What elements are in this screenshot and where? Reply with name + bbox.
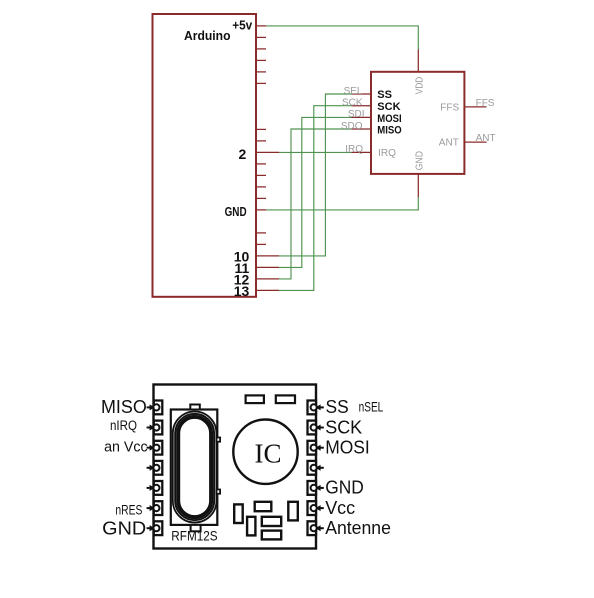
pin 12 stub (256, 278, 279, 280)
RF module chip box U2 (371, 72, 464, 174)
svg-text:IRQ: IRQ (345, 144, 363, 155)
smd comp C (255, 502, 272, 511)
wire SDO net (279, 129, 352, 279)
svg-text:SCK: SCK (325, 417, 362, 437)
left arrow 3 (147, 445, 155, 451)
crystal side bump 1 (217, 438, 221, 442)
svg-text:SS: SS (377, 89, 392, 101)
left arrow 5 (147, 485, 155, 491)
svg-text:nRES: nRES (115, 502, 142, 517)
pin FFS line (464, 106, 486, 108)
left pin pad 5 (153, 481, 162, 495)
pin stub row19 (256, 243, 266, 245)
smd comp B (247, 517, 255, 536)
crystal can ring mid (175, 414, 214, 520)
pin SCK stub (352, 105, 372, 107)
left arrow 1 (147, 404, 155, 410)
smd comp F (288, 502, 298, 521)
left pin pad 1 (MISO) (153, 401, 162, 415)
left pin pad 4 (153, 461, 162, 475)
pin SDI stub (352, 116, 372, 118)
right pin pad 5 (GND) (308, 481, 317, 495)
left pin pad 2 (nIRQ) (153, 421, 162, 435)
pin stub row13 (256, 174, 266, 176)
pin SEL stub (352, 93, 372, 95)
pin VDD stub (417, 50, 419, 72)
right arrow 5 (315, 485, 323, 491)
pin IRQ stub (352, 151, 372, 153)
svg-text:IC: IC (255, 438, 282, 468)
crystal outer rect (171, 410, 218, 525)
pin stub row5 (256, 82, 266, 84)
svg-text:13: 13 (234, 283, 250, 299)
smd comp E (262, 531, 281, 540)
right arrow 1 (315, 404, 323, 410)
svg-text:MISO: MISO (377, 125, 402, 137)
pin stub row4 (256, 71, 266, 73)
right arrow 6 (315, 505, 323, 511)
svg-text:SDO: SDO (341, 121, 363, 132)
svg-text:GND: GND (325, 478, 364, 498)
wire GND net (266, 197, 418, 210)
pin ANT line (464, 141, 486, 143)
svg-text:SCK: SCK (342, 98, 363, 109)
smd cap top 2 (276, 395, 295, 403)
wire +5v net (266, 26, 418, 50)
right arrow 3 (315, 445, 323, 451)
left arrow 6 (147, 505, 155, 511)
pin 11 stub (256, 266, 279, 268)
crystal side bump 2 (217, 490, 221, 494)
pin GND chip stub (417, 174, 419, 197)
IC circle (233, 420, 297, 484)
smd cap top 1 (246, 395, 264, 403)
svg-text:Arduino: Arduino (184, 29, 231, 43)
right pin pad 3 (MOSI) (308, 441, 317, 455)
svg-text:MISO: MISO (101, 397, 147, 417)
svg-text:SS: SS (326, 396, 349, 417)
crystal can ring inner (178, 417, 211, 517)
left pin pad 6 (nRES) (153, 501, 162, 515)
right pin pad 7 (Antenne) (308, 521, 317, 535)
left arrow 7 (147, 525, 155, 531)
svg-text:nIRQ: nIRQ (110, 418, 137, 433)
svg-text:VDD: VDD (414, 77, 425, 95)
left pin pad 7 (GND) (153, 521, 162, 535)
right arrow 4 (315, 465, 323, 471)
pin stub row15 (256, 197, 266, 199)
smd comp D (262, 517, 281, 526)
pin stub row2 (256, 48, 266, 50)
left arrow 2 (147, 425, 155, 431)
Arduino box U1 (153, 14, 257, 297)
pin 2 stub (256, 151, 279, 153)
svg-text:nSEL: nSEL (359, 398, 384, 414)
right pin pad 6 (Vcc) (308, 501, 317, 515)
wire IRQ net (279, 151, 352, 153)
svg-text:FFS: FFS (440, 103, 459, 114)
module board outline (154, 385, 317, 549)
svg-text:MOSI: MOSI (377, 113, 401, 125)
wire SDI net (279, 117, 352, 267)
right arrow 2 (315, 425, 323, 431)
wire SEL net (279, 94, 352, 256)
left arrow 4 (147, 465, 155, 471)
crystal bottom tab (191, 525, 201, 531)
right arrow 7 (315, 525, 323, 531)
pin SDO stub (352, 128, 372, 130)
svg-text:SDI: SDI (348, 109, 365, 120)
svg-text:SCK: SCK (377, 101, 400, 113)
pin stub row12 (256, 163, 266, 165)
svg-text:GND: GND (102, 518, 146, 539)
svg-text:ANT: ANT (476, 133, 496, 144)
pin stub row3 (256, 59, 266, 61)
pin 13 stub (256, 289, 279, 291)
wire SCK net (279, 106, 352, 291)
right pin pad 2 (SCK) (308, 421, 317, 435)
svg-text:GND: GND (414, 151, 425, 170)
svg-text:2: 2 (239, 146, 247, 162)
svg-text:IRQ: IRQ (378, 148, 396, 159)
pin stub row10 (256, 140, 266, 142)
svg-text:an Vcc: an Vcc (104, 440, 148, 456)
pin stub row18 (256, 232, 266, 234)
right pin pad 4 (308, 461, 317, 475)
svg-text:RFM12S: RFM12S (171, 529, 217, 544)
left pin pad 3 (an Vcc) (153, 441, 162, 455)
pin GND stub (256, 209, 266, 211)
svg-text:FFS: FFS (476, 98, 495, 109)
svg-text:+5v: +5v (232, 19, 252, 33)
svg-text:SEL: SEL (344, 86, 363, 97)
pin stub row9 (256, 128, 266, 130)
pin +5v stub (256, 25, 266, 27)
svg-text:Antenne: Antenne (325, 518, 391, 538)
svg-text:MOSI: MOSI (325, 438, 370, 458)
pin stub row1 (256, 36, 266, 38)
right pin pad 1 (SS) (308, 401, 317, 415)
crystal can ring outer (173, 412, 217, 523)
pin 10 stub (256, 255, 279, 257)
pin stub row14 (256, 186, 266, 188)
svg-text:Vcc: Vcc (325, 498, 355, 518)
svg-text:ANT: ANT (439, 138, 459, 149)
smd comp A (234, 504, 243, 523)
crystal top tab (190, 405, 200, 410)
svg-text:GND: GND (225, 204, 247, 219)
